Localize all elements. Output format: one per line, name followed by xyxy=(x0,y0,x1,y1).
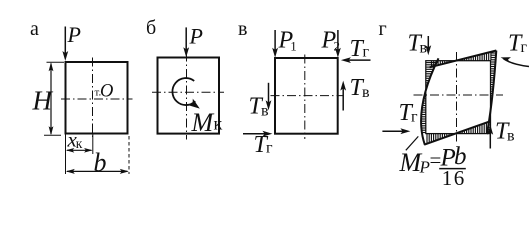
vertical centerline (fig b) xyxy=(186,53,188,140)
dimension H line with arrows (fig a) xyxy=(49,62,54,135)
extension line below left edge (fig a) xyxy=(65,134,67,174)
member rectangle (fig a) xyxy=(66,62,128,134)
hatched displacement wedges (fig g) xyxy=(421,52,496,144)
shear T_v arrow right, up (fig v) xyxy=(340,81,346,111)
svg-text:O: O xyxy=(100,82,113,102)
label T_v bottom right (fig g) xyxy=(495,119,515,145)
label P (fig b) xyxy=(189,24,203,49)
dimension x_k line with arrows (fig a) xyxy=(66,148,93,153)
member rectangle (fig b) xyxy=(158,58,220,134)
label а (figure a) xyxy=(30,18,39,40)
svg-text:г: г xyxy=(411,109,418,126)
svg-text:в: в xyxy=(261,103,269,120)
svg-text:H: H xyxy=(32,86,54,116)
leader line to formula (fig g) xyxy=(406,136,419,150)
label P2 (fig v) xyxy=(321,28,341,54)
label в (figure v) xyxy=(238,18,247,40)
label г (figure g) xyxy=(379,18,387,40)
formula equals sign (fig g) xyxy=(430,148,442,172)
label T_v top left (fig g) xyxy=(408,31,428,57)
horizontal centerline (fig b) xyxy=(152,91,224,93)
label T_g bottom left (fig v) xyxy=(254,132,274,158)
label H (fig a) xyxy=(32,86,54,116)
svg-text:P: P xyxy=(67,22,81,47)
shear T_v arrow top left, down (fig g) xyxy=(425,36,431,55)
label P (fig a) xyxy=(67,22,81,47)
shear T_g arrow bottom left, right-pointing (fig v) xyxy=(243,131,272,137)
svg-text:b: b xyxy=(94,148,107,177)
svg-text:P: P xyxy=(189,24,203,49)
shear T_g arrow left, right-pointing (fig g) xyxy=(382,128,410,134)
horizontal centerline (fig a) xyxy=(61,98,133,100)
centroid label т.O (fig a) xyxy=(95,82,114,102)
label b (fig a) xyxy=(94,148,107,177)
svg-text:к: к xyxy=(214,114,223,134)
svg-text:16: 16 xyxy=(442,166,466,187)
svg-text:M: M xyxy=(191,108,215,137)
twisted section top edge (fig g) xyxy=(430,51,497,68)
label P1 (fig v) xyxy=(278,28,297,54)
formula fraction bar (fig g) xyxy=(439,168,466,170)
force P2 arrow (fig v) xyxy=(335,30,341,58)
vertical centerline (fig a) xyxy=(92,58,94,139)
shear T_v arrow bottom right, up (fig g) xyxy=(487,125,493,149)
twisted section left edge (fig g) xyxy=(421,58,438,144)
torque M_k circular arrow (fig b) xyxy=(172,78,199,109)
original square outline (fig g) xyxy=(426,61,491,134)
svg-text:г: г xyxy=(521,39,528,56)
svg-text:г: г xyxy=(363,43,370,60)
label T_g top right (fig v) xyxy=(350,36,370,62)
label T_v right (fig v) xyxy=(350,75,371,101)
shear T_g arrow top right (fig v) xyxy=(341,57,371,63)
force P1 arrow (fig v) xyxy=(272,30,278,58)
label M_k (fig b) xyxy=(191,108,223,137)
label x_k (fig a) xyxy=(67,128,83,152)
svg-text:в: в xyxy=(238,18,247,40)
label T_v left (fig v) xyxy=(249,94,270,120)
formula numerator Pb (fig g) xyxy=(440,143,467,171)
shear T_v arrow left, down (fig v) xyxy=(266,83,272,111)
svg-text:в: в xyxy=(420,40,428,57)
vertical centerline (fig g) xyxy=(456,52,458,142)
label T_g top right (fig g) xyxy=(508,31,528,57)
dashed extension line below right edge (fig a) xyxy=(128,136,130,174)
svg-text:1: 1 xyxy=(290,39,297,54)
svg-text:в: в xyxy=(507,128,515,145)
horizontal centerline (fig g) xyxy=(414,94,504,96)
horizontal centerline (fig v) xyxy=(271,95,343,97)
svg-text:2: 2 xyxy=(334,39,341,54)
formula denominator 16 (fig g) xyxy=(442,166,466,190)
svg-text:а: а xyxy=(30,18,39,40)
twisted section right edge (fig g) xyxy=(487,51,496,134)
svg-text:P: P xyxy=(419,158,430,177)
dimension b line with arrows (fig a) xyxy=(66,169,129,174)
vertical centerline (fig v) xyxy=(304,55,306,140)
shear T_g curved arrow top right (fig g) xyxy=(501,57,529,66)
force P arrow (fig a) xyxy=(62,27,68,62)
svg-text:г: г xyxy=(379,18,387,40)
force P arrow (fig b) xyxy=(183,27,189,57)
svg-text:г: г xyxy=(266,140,273,157)
dimension H extension lines (fig a) xyxy=(44,62,64,135)
formula M_P (fig g) xyxy=(399,148,430,177)
member rectangle (fig v) xyxy=(275,58,338,134)
svg-text:в: в xyxy=(362,84,370,101)
twisted section bottom edge (fig g) xyxy=(424,121,490,144)
svg-text:б: б xyxy=(146,17,156,39)
svg-text:к: к xyxy=(76,136,83,151)
label T_g left (fig g) xyxy=(399,100,419,126)
label б (figure b) xyxy=(146,17,156,39)
extension line below centerline for x_k (fig a) xyxy=(92,134,94,154)
